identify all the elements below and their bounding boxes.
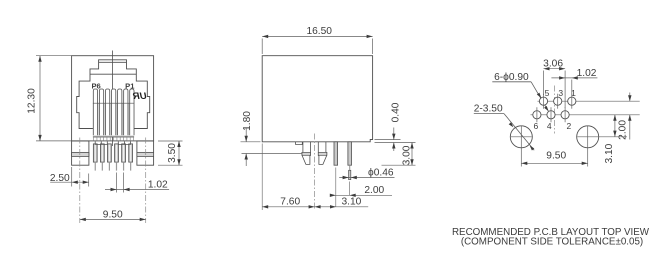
dimension 16.50 extension lines — [261, 39, 263, 55]
svg-text:P6: P6 — [91, 81, 100, 90]
dimension 3.10 (pcb) line — [614, 115, 616, 137]
middle view: pin row 2 — [348, 142, 352, 165]
middle view: body outline — [262, 56, 372, 142]
left view: comb teeth below — [93, 137, 95, 140]
pcb layout: mounting hole left (3.50) — [510, 126, 532, 148]
left view: plug cavity stepped profile — [77, 60, 150, 129]
dimension 2.00 (pcb) line and arrows — [629, 93, 631, 102]
svg-text:12.30: 12.30 — [27, 88, 38, 114]
dimension 2.00 extension from pin — [335, 168, 337, 208]
middle view: snap post right half — [318, 142, 327, 165]
pcb layout: cluster vertical centerline (dash-dot) — [553, 86, 555, 134]
dimension 1.02 line — [105, 189, 169, 191]
left view: vertical centerline — [112, 51, 114, 147]
left view: post centerline right (dash-dot) — [145, 138, 147, 224]
dimension 2.50 line — [50, 181, 88, 183]
svg-text:1.80: 1.80 — [242, 111, 253, 131]
middle view: pin row 2 thin tail — [349, 165, 351, 170]
dimension 16.50 line — [262, 35, 372, 37]
dimension 1.02 extension lines — [116, 173, 118, 193]
svg-text:1.02: 1.02 — [148, 179, 168, 190]
dimension 0.40 extension lines — [375, 139, 401, 141]
svg-text:(COMPONENT SIDE TOLERANCE±0.05: (COMPONENT SIDE TOLERANCE±0.05) — [461, 236, 643, 247]
pcb layout: bottom row centerline — [531, 114, 640, 116]
dimension 3.00 line — [411, 143, 413, 166]
svg-text:2.50: 2.50 — [50, 173, 70, 184]
svg-text:ϕ0.46: ϕ0.46 — [368, 167, 394, 178]
svg-text:4: 4 — [547, 121, 552, 131]
svg-text:2.00: 2.00 — [364, 185, 384, 196]
left view: comb bottom line — [93, 136, 134, 138]
svg-text:3.50: 3.50 — [167, 143, 178, 163]
left view: post centerline left (dash-dot) — [79, 138, 81, 224]
left view: latch slot inner line — [99, 61, 127, 63]
dimension 3.06 line — [544, 68, 566, 70]
svg-text:3.10: 3.10 — [341, 196, 361, 207]
left view: pin bracket right group — [118, 141, 130, 144]
svg-text:6-ϕ0.90: 6-ϕ0.90 — [494, 72, 529, 83]
dimension 9.50 (pcb) line — [521, 162, 587, 164]
dimension dia 0.46 line — [339, 177, 394, 179]
svg-text:2: 2 — [567, 121, 572, 131]
dimension 3.50 line — [178, 141, 180, 165]
middle view: snap post left barb band — [302, 152, 311, 155]
svg-text:3: 3 — [558, 88, 563, 98]
left view: jack body outline — [72, 56, 154, 141]
svg-text:0.40: 0.40 — [390, 102, 401, 122]
middle view: pin row 1 — [334, 142, 338, 165]
svg-text:2-3.50: 2-3.50 — [474, 104, 503, 115]
left view: UL recognized mark — [133, 91, 147, 102]
left view: left mounting wing — [72, 141, 89, 165]
pcb layout: pin holes top row (5,3,1) — [539, 97, 547, 105]
pcb layout: top row centerline — [538, 100, 640, 102]
left view: right mounting wing — [137, 141, 154, 165]
svg-text:7.60: 7.60 — [280, 196, 300, 207]
middle view: post centerline (dash-dot) — [314, 134, 316, 211]
left view: comb mid line — [93, 102, 134, 104]
dimension 3.00 extension line — [382, 164, 416, 166]
dimension 2.50 extension lines — [71, 167, 73, 187]
dimension 1.80 line and arrows — [245, 129, 247, 142]
pcb layout: pin holes bottom row (6,4,2) — [533, 111, 541, 119]
left view: solder pins — [93, 144, 97, 162]
pcb layout: leader 2-3.50 through left hole — [474, 113, 504, 115]
svg-text:UR: UR — [133, 91, 147, 102]
dimension 0.40 line and arrows — [393, 128, 395, 140]
svg-text:16.50: 16.50 — [306, 26, 332, 37]
middle view: snap post left half — [302, 142, 311, 165]
left view: left wing slot band — [72, 152, 89, 156]
dimension 3.06 extension lines — [543, 71, 545, 96]
dimension 7.60 / 3.10 baseline — [261, 144, 263, 211]
svg-text:3.10: 3.10 — [604, 143, 615, 163]
left view: pin bracket left group — [95, 141, 107, 144]
left view: right wing slot band — [137, 152, 154, 156]
svg-text:P1: P1 — [125, 81, 135, 90]
dimension 3.10 (pcb) extension line — [598, 136, 627, 138]
svg-text:3.06: 3.06 — [543, 58, 563, 69]
svg-text:1.02: 1.02 — [577, 68, 597, 79]
dimension 1.02 (pcb) extension line — [571, 80, 573, 96]
left view: cavity inner horizontal line — [90, 73, 136, 75]
pcb layout: mounting hole right (3.50) — [577, 126, 599, 148]
svg-text:9.50: 9.50 — [103, 209, 123, 220]
dimension 1.80 extension lines — [241, 141, 261, 143]
dimension 1.02 (pcb) line — [551, 77, 597, 79]
middle view: snap post right barb band — [318, 152, 327, 155]
dimension 12.30 line — [39, 56, 41, 141]
pcb layout: leader 6-dia0.90 — [492, 81, 531, 83]
dimension 2.00 line — [332, 194, 392, 196]
dimension 12.30 extension lines — [36, 55, 72, 57]
svg-text:3.00: 3.00 — [402, 145, 413, 165]
dimension 3.50 extension lines — [158, 140, 183, 142]
middle view: bottom tab — [296, 142, 303, 145]
left view: contact comb slots — [93, 103, 134, 137]
svg-text:6: 6 — [534, 121, 539, 131]
svg-text:5: 5 — [545, 88, 550, 98]
middle view: pin row 2 solder tail capsule — [349, 170, 351, 179]
svg-text:9.50: 9.50 — [546, 150, 566, 161]
dimension 9.50 line (left view) — [80, 218, 146, 220]
